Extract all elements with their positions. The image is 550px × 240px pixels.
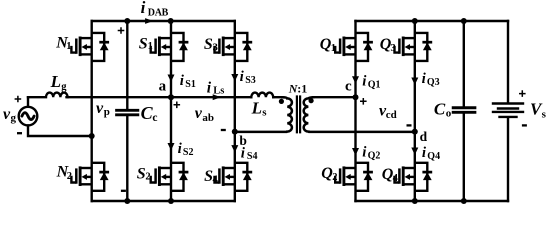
arrow iQ1 [352, 76, 359, 84]
plus vab [174, 102, 181, 109]
wire Co branch [463, 21, 465, 201]
svg-text:S1: S1 [185, 79, 196, 90]
svg-text:i: i [240, 69, 245, 85]
battery Vs [493, 104, 523, 112]
transistor Q3 [395, 33, 433, 61]
plus vg [15, 96, 22, 103]
junction dot Cc top [124, 18, 130, 24]
svg-text:L: L [50, 72, 61, 91]
transistor Q2 [335, 163, 373, 191]
junction dot Co top [461, 18, 467, 24]
minus vab [221, 129, 226, 131]
wire bottom rail secondary [356, 200, 509, 202]
junction dot S1 top [168, 18, 174, 24]
arrow iQ2 [352, 148, 359, 156]
svg-text:ab: ab [202, 112, 214, 124]
minus Vs [522, 124, 527, 126]
junction dot Cc bottom [124, 198, 130, 204]
svg-text:v: v [96, 100, 104, 117]
inductor Lg [28, 93, 68, 98]
transformer polarity dot primary [279, 99, 284, 104]
transistor Q4 [395, 163, 433, 191]
svg-text:s: s [262, 107, 267, 119]
wire transformer to node c [313, 96, 355, 98]
svg-text:Q4: Q4 [427, 151, 440, 162]
svg-text:2: 2 [67, 171, 72, 182]
transistor S3 [215, 33, 253, 61]
wire Ls to transformer [273, 96, 282, 98]
wire S1 leg [170, 21, 172, 201]
arrow iS4 [231, 145, 238, 153]
svg-text:cd: cd [386, 109, 397, 121]
node c dot [353, 94, 359, 100]
svg-text:L: L [251, 98, 262, 117]
svg-text:DAB: DAB [148, 7, 169, 18]
plus vcd [360, 98, 367, 105]
arrow iQ4 [411, 148, 418, 156]
svg-text:S4: S4 [247, 151, 258, 162]
wire vg top lead [27, 97, 29, 107]
arrow iS1 [168, 75, 175, 83]
svg-text:i: i [180, 73, 185, 89]
svg-text:g: g [11, 112, 17, 124]
svg-text:1: 1 [148, 41, 153, 52]
transformer core [297, 97, 300, 133]
svg-text:3: 3 [213, 42, 218, 53]
svg-text:i: i [422, 71, 427, 87]
transistor Q1 [335, 33, 373, 61]
svg-text:i: i [141, 0, 146, 17]
svg-text:4: 4 [213, 175, 219, 186]
svg-text:i: i [362, 73, 367, 89]
svg-text:Q3: Q3 [427, 77, 440, 88]
arrow iS3 [231, 74, 238, 82]
wire Cc branch [126, 21, 128, 201]
transistor N2 [71, 163, 109, 191]
transformer polarity dot secondary [309, 98, 314, 103]
wire Vs branch [507, 21, 509, 201]
transistor S1 [151, 33, 189, 61]
node b dot [232, 129, 238, 135]
svg-text:4: 4 [393, 173, 399, 184]
plus vp [118, 27, 125, 34]
svg-text:1: 1 [331, 43, 336, 54]
svg-text:g: g [61, 81, 67, 92]
capacitor Cc [117, 110, 138, 115]
arrow iQ3 [411, 78, 418, 86]
node d dot [412, 129, 418, 135]
capacitor Co [453, 108, 475, 113]
arrow iDAB [145, 18, 153, 24]
svg-text:1: 1 [66, 41, 71, 52]
transformer secondary winding [304, 97, 415, 132]
svg-text:a: a [159, 78, 167, 94]
junction dot vg N leg [89, 133, 95, 139]
transistor S2 [151, 163, 189, 191]
junction dot Q3 top [412, 18, 418, 24]
wire Q3 leg [414, 21, 416, 201]
svg-text:3: 3 [391, 43, 396, 54]
wire vg bottom lead [28, 125, 92, 136]
svg-text::1: :1 [297, 81, 307, 95]
svg-text:Q2: Q2 [368, 151, 381, 162]
svg-text:Ls: Ls [213, 86, 224, 97]
svg-text:i: i [207, 80, 212, 97]
svg-text:Q1: Q1 [368, 80, 381, 91]
minus vcd [407, 124, 412, 126]
inductor Ls [251, 93, 273, 98]
svg-text:c: c [345, 78, 352, 94]
wire top rail secondary [356, 20, 509, 22]
wire S3 leg [234, 21, 236, 201]
plus Vs [519, 90, 526, 97]
source vg [19, 107, 38, 126]
junction dot Q4 bottom [412, 198, 418, 204]
svg-text:s: s [542, 108, 547, 120]
svg-text:S: S [204, 36, 213, 53]
svg-text:i: i [362, 145, 367, 161]
svg-text:i: i [178, 141, 183, 157]
svg-text:2: 2 [145, 172, 150, 183]
svg-text:S3: S3 [245, 75, 256, 86]
svg-text:S2: S2 [183, 147, 194, 158]
svg-text:i: i [422, 145, 427, 161]
wire bottom rail primary [92, 200, 235, 202]
minus vp [121, 190, 126, 192]
transistor S4 [215, 163, 253, 191]
svg-text:C: C [434, 99, 446, 118]
svg-text:c: c [152, 112, 157, 124]
wire Q1 leg [354, 21, 356, 201]
wire N leg [90, 21, 92, 201]
svg-text:p: p [104, 106, 110, 118]
node a dot [168, 94, 174, 100]
junction dot Co bottom [461, 198, 467, 204]
junction dot S2 bottom [168, 198, 174, 204]
wire vg to node a [67, 96, 252, 98]
minus vg [17, 132, 22, 134]
wire top rail primary [92, 20, 235, 22]
transistor N1 [71, 33, 109, 61]
arrow iLs [213, 94, 221, 100]
svg-text:S: S [139, 35, 148, 52]
arrow iS2 [168, 143, 175, 151]
svg-text:2: 2 [332, 172, 337, 183]
svg-text:o: o [446, 108, 452, 120]
transformer primary winding [235, 97, 292, 132]
svg-text:d: d [420, 129, 428, 144]
